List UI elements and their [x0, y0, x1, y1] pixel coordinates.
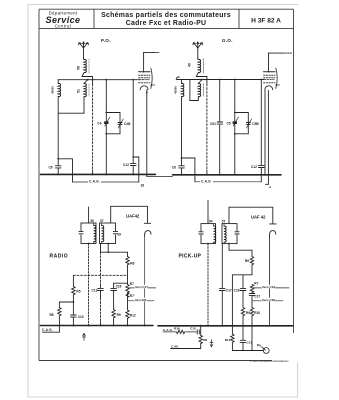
svg-text:Schémas partiels des commutate: Schémas partiels des commutateurs	[101, 12, 231, 19]
junction dots	[87, 79, 134, 81]
wire secondary down	[181, 97, 183, 166]
tube V2 anode wire	[269, 53, 293, 72]
capacitor T2 (right edge)	[113, 231, 118, 234]
tube cathode line PU	[269, 237, 271, 326]
bus node dots	[57, 173, 134, 175]
capacitor C16 line	[111, 283, 117, 309]
resistor R14 chain	[231, 326, 234, 351]
arrow mark +	[82, 333, 85, 340]
junction dots	[201, 79, 262, 81]
svg-text:C.A.G.: C.A.G.	[89, 180, 100, 184]
svg-text:43000: 43000	[174, 86, 178, 94]
svg-text:R5: R5	[76, 290, 80, 294]
node dot	[107, 251, 109, 253]
svg-text:R6: R6	[245, 259, 249, 263]
svg-text:Pu: Pu	[257, 344, 261, 348]
svg-text:Vers C17: Vers C17	[135, 285, 148, 289]
svg-text:57: 57	[222, 220, 226, 224]
node dot	[181, 157, 183, 159]
svg-text:19: 19	[117, 232, 121, 236]
trimmer box C5B	[235, 113, 249, 134]
wire Vers C17	[128, 287, 155, 289]
coil L3 (secondary)	[58, 80, 60, 97]
svg-text:G.O.: G.O.	[222, 38, 233, 43]
bus node dots PU	[200, 325, 271, 327]
resistor R6b	[250, 250, 253, 275]
svg-text:36: 36	[90, 219, 94, 223]
scanned page edges	[28, 5, 298, 398]
resistor R16 (horizontal)	[176, 330, 186, 335]
wire feed tank2 + grid wire	[111, 206, 148, 223]
svg-text:C5B: C5B	[252, 122, 259, 126]
resistor R7'	[126, 293, 129, 298]
svg-text:51: 51	[77, 89, 81, 93]
antenna A2	[193, 42, 203, 58]
svg-text:UAF 42: UAF 42	[251, 214, 266, 219]
svg-text:C.1087.Schémas.commutateurs: C.1087.Schémas.commutateurs	[250, 360, 289, 363]
trimmer dashes L4	[202, 59, 204, 74]
svg-text:43000: 43000	[51, 86, 55, 94]
node dots	[234, 112, 236, 135]
label Vers C12	[262, 285, 276, 289]
label Vers C17	[135, 285, 149, 289]
arrow mark down	[210, 340, 213, 347]
svg-text:C16: C16	[116, 285, 122, 289]
node grid line G.O.	[177, 79, 264, 81]
trimmer box C4B	[106, 113, 120, 134]
wire Vers C18	[253, 300, 283, 302]
svg-text:R7: R7	[254, 282, 258, 286]
hook contact	[176, 77, 179, 80]
svg-text:C13: C13	[92, 288, 98, 292]
wire C12 line	[132, 80, 134, 175]
wire AGC branch left GO	[182, 158, 195, 182]
svg-text:18: 18	[141, 184, 145, 188]
label C.A.G.	[88, 179, 101, 184]
wire tank4 bottom stub	[228, 244, 230, 251]
resistor R7	[126, 275, 129, 310]
resistor R5 chain	[72, 275, 75, 302]
wire C.A.G. line GO	[195, 181, 261, 183]
header divider left/middle	[93, 9, 95, 28]
wire pickup bottom	[232, 350, 263, 352]
resistor R8 chain	[43, 302, 62, 332]
capacitor C12	[130, 163, 136, 166]
svg-text:Vers R6: Vers R6	[135, 298, 147, 302]
node tank4 bottom	[228, 243, 230, 245]
bus node dots RADIO	[72, 325, 145, 327]
capacitor C4 (variable)	[104, 117, 110, 126]
svg-text:C15: C15	[190, 327, 196, 331]
svg-text:R16: R16	[174, 327, 180, 331]
wire gang stub T3 (dashed)	[207, 244, 209, 326]
tube cathode line	[144, 237, 146, 326]
capacitor C5B (trimmer)	[246, 119, 251, 128]
pickup PU symbol	[262, 347, 269, 354]
svg-text:C17: C17	[254, 295, 260, 299]
wire secondary bottom	[58, 97, 84, 114]
wire to G.O. ground	[147, 176, 173, 178]
label Vers C18	[262, 298, 276, 302]
coil L4	[198, 58, 201, 73]
resistor R10	[250, 308, 253, 326]
wire gang stub T1 (dashed)	[88, 244, 90, 326]
bus node dots GO	[181, 174, 267, 176]
label C.A.G.	[163, 328, 173, 332]
node dot	[57, 158, 59, 160]
svg-text:C.A.G.: C.A.G.	[42, 328, 53, 332]
svg-text:R9: R9	[117, 313, 121, 317]
svg-text:C12: C12	[251, 165, 257, 169]
svg-text:R8: R8	[203, 338, 207, 342]
label C.A.G.	[200, 179, 213, 184]
svg-text:C16: C16	[234, 288, 240, 292]
resistor R7b	[250, 284, 253, 293]
svg-text:Vers C12: Vers C12	[262, 285, 275, 289]
resistor R9	[112, 310, 115, 326]
tube V1 anode wire	[144, 52, 159, 72]
svg-text:Cadre Fxc et Radio-PU: Cadre Fxc et Radio-PU	[126, 20, 207, 27]
wire Vers C12	[253, 287, 289, 289]
capacitor C6	[55, 166, 61, 175]
wire feed tank3	[207, 201, 209, 224]
coil L2	[84, 80, 88, 114]
svg-text:C10: C10	[78, 315, 84, 319]
node dot	[73, 301, 75, 303]
inner box top edge PU	[232, 274, 252, 276]
wire C12b line	[260, 80, 262, 182]
label Vers R6	[135, 298, 148, 302]
capacitor C13	[98, 288, 104, 290]
wire link bar	[190, 80, 198, 101]
wire tank2 left-edge down	[100, 244, 102, 326]
tank box T1	[81, 223, 96, 244]
capacitor C17b branch	[240, 326, 246, 351]
header divider middle/right	[238, 9, 240, 28]
coil L6 (secondary)	[182, 80, 184, 97]
wire tank2 bottom stub	[107, 244, 109, 253]
capacitor C51	[217, 122, 223, 125]
capacitor T3 (left edge)	[199, 231, 204, 234]
resistor R8b chain	[171, 326, 203, 349]
coil T4 (left edge)	[224, 224, 226, 244]
tube V1 cathode lead	[146, 90, 148, 177]
svg-text:C.AV: C.AV	[171, 345, 179, 349]
resistor R12	[126, 310, 129, 326]
trimmer dashes L1	[88, 59, 90, 74]
ground bus G.O.	[173, 174, 282, 176]
tank box T3	[201, 224, 216, 244]
header band separator	[39, 28, 294, 30]
wire C4 line	[105, 80, 107, 175]
coil T3 (right edge)	[214, 224, 216, 244]
wire AGC branch left	[58, 159, 72, 182]
svg-text:C17: C17	[246, 340, 252, 344]
wire R12 line below bus	[251, 326, 253, 351]
wire C.A.G. line	[73, 181, 140, 183]
wire switch link (dashed)	[73, 274, 127, 276]
coil T2 (left edge)	[102, 223, 104, 244]
inner box top edge	[114, 282, 128, 284]
capacitor C12b	[258, 165, 264, 168]
antenna A1	[79, 42, 89, 58]
svg-text:H 3F 82 A: H 3F 82 A	[251, 18, 281, 25]
wire inner-box left edge	[231, 275, 233, 326]
wire link to R6b	[229, 249, 252, 251]
coil L1 (antenna coil)	[84, 58, 87, 73]
wire left branch down	[57, 113, 59, 165]
trimmer dashes L2	[88, 84, 90, 96]
resistor R6	[126, 252, 129, 275]
svg-text:R7: R7	[130, 282, 134, 286]
wire link to R6	[101, 251, 128, 253]
capacitor C10 branch	[71, 302, 77, 326]
tube V2 (pentode section)	[264, 68, 280, 90]
svg-text:R6: R6	[130, 262, 134, 266]
wire coil L1 to switch	[82, 73, 93, 77]
wire C51 line	[219, 80, 221, 175]
wire AGC input line	[163, 331, 201, 333]
svg-text:R9: R9	[246, 311, 250, 315]
header left box text	[46, 10, 81, 28]
wire tank4 left-edge down	[221, 244, 223, 326]
ground bus PICK-UP	[158, 325, 293, 327]
grid cap hook	[270, 231, 276, 238]
node dot	[132, 156, 134, 158]
ground bus RADIO	[41, 325, 154, 327]
svg-text:C.A.G: C.A.G	[201, 179, 211, 183]
svg-text:Vers C18: Vers C18	[262, 298, 275, 302]
svg-text:49: 49	[188, 63, 192, 67]
capacitor T4 (right edge)	[235, 231, 240, 234]
ground bus P.O.	[41, 173, 156, 175]
svg-text:C17: C17	[226, 288, 232, 292]
wire C5 line	[234, 80, 236, 175]
node tank2 bottom	[107, 243, 109, 245]
wire gang link (dashed)	[92, 77, 94, 175]
svg-text:+: +	[269, 185, 271, 189]
svg-text:R10: R10	[254, 311, 260, 315]
wire gang link GO (dashed)	[206, 77, 208, 175]
wire Vers R6	[128, 300, 154, 302]
svg-text:C.A.G.: C.A.G.	[163, 328, 173, 332]
wire T to R8	[59, 301, 73, 303]
svg-text:C4: C4	[97, 121, 101, 125]
tube V1 (pentode section)	[139, 68, 155, 90]
wire feed tank1	[88, 207, 90, 223]
node grid line P.O.	[58, 79, 139, 81]
tank box T2	[100, 223, 116, 244]
coil T1 (right edge)	[94, 223, 96, 244]
wire feed tank4 + grid wire	[229, 207, 273, 224]
capacitor C4B (trimmer)	[118, 119, 123, 128]
capacitor C17	[220, 288, 226, 290]
svg-text:PICK-UP: PICK-UP	[179, 254, 202, 260]
tank box T4	[222, 224, 237, 244]
svg-text:58: 58	[77, 66, 81, 70]
svg-text:54: 54	[209, 220, 213, 224]
tube V2 cathode leads	[265, 90, 268, 184]
resistor R9b	[241, 308, 244, 326]
svg-text:C6: C6	[49, 165, 53, 169]
capacitor C6b	[179, 166, 185, 175]
svg-text:R8: R8	[50, 313, 54, 317]
svg-text:R12: R12	[130, 314, 136, 318]
svg-text:C5: C5	[227, 121, 231, 125]
grid cap T-bar	[270, 223, 277, 225]
trimmer dashes L5	[202, 84, 204, 96]
wire AGC branch right	[133, 157, 139, 182]
coil L5	[198, 80, 202, 101]
drawing frame border	[39, 9, 294, 360]
grid cap hook	[145, 231, 151, 237]
capacitor T1 (left edge)	[79, 231, 84, 234]
svg-text:UAF42: UAF42	[126, 214, 140, 219]
node tank1 bottom	[88, 243, 90, 245]
capacitor C17'	[249, 294, 255, 308]
node tank3 bottom	[207, 243, 209, 245]
svg-text:Central: Central	[55, 24, 71, 29]
wire coil L4 to switch	[196, 73, 207, 77]
header title	[101, 12, 231, 27]
svg-text:C6: C6	[172, 165, 176, 169]
svg-text:R14: R14	[225, 338, 231, 342]
capacitor C15 (series)	[197, 329, 201, 334]
capacitor C5 (variable)	[233, 117, 239, 126]
grid cap T-bar	[144, 222, 150, 224]
svg-text:C4B: C4B	[124, 122, 131, 126]
svg-text:C51: C51	[210, 122, 216, 126]
svg-text:P.O.: P.O.	[101, 38, 111, 43]
svg-text:C12: C12	[123, 163, 129, 167]
svg-text:RADIO: RADIO	[50, 254, 69, 260]
node dots	[105, 112, 107, 135]
capacitor C16b line	[240, 275, 246, 308]
svg-text:37: 37	[100, 219, 104, 223]
